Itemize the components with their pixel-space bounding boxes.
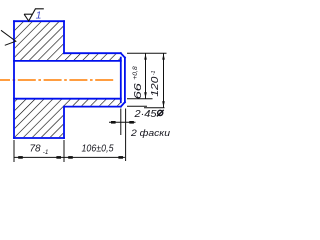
svg-text:-1: -1	[43, 149, 49, 156]
svg-text:+0,8: +0,8	[133, 66, 139, 80]
hatch flange lower band	[15, 99, 63, 138]
bore bottom line	[14, 98, 121, 100]
chamfer diagonal bottom	[121, 102, 125, 106]
chamfer line	[120, 58, 122, 103]
chamfer diagonal top	[121, 53, 125, 57]
step face lower	[63, 107, 65, 138]
arrow 66 top	[144, 54, 147, 60]
arrow 120 top	[162, 54, 165, 60]
arrow 120 bottom	[162, 101, 165, 107]
dimension line 66 vertical	[145, 53, 147, 98]
extension chamfer line down	[120, 109, 122, 136]
chamfer width dimension line	[109, 121, 136, 123]
extension end face down	[125, 109, 127, 162]
arrow 66 bottom	[144, 92, 147, 98]
svg-text:106±0,5: 106±0,5	[82, 143, 114, 154]
tick chamfer left	[111, 121, 116, 124]
dimension graphics (black thin)	[14, 53, 167, 162]
hatch flange upper band	[15, 22, 63, 60]
svg-text:1: 1	[36, 10, 42, 22]
svg-text:-1: -1	[151, 70, 157, 75]
hatch shaft upper wall	[63, 54, 121, 60]
dimension line 120 vertical	[163, 53, 165, 107]
tick 106 right	[118, 156, 123, 159]
flange top edge	[14, 20, 64, 22]
bottom dimension line 78 / 106	[14, 156, 125, 158]
extension shaft top right	[127, 52, 167, 54]
svg-text:120: 120	[150, 76, 161, 97]
left face	[13, 21, 15, 138]
end face	[124, 58, 126, 103]
svg-text:78: 78	[30, 144, 42, 155]
bore top line	[14, 60, 121, 62]
extension shaft bottom right	[127, 105, 147, 107]
shelf line of chamfer note	[144, 107, 165, 109]
extension line left face down	[13, 140, 15, 162]
extension line flange right down	[63, 140, 65, 162]
tick 106 left	[68, 156, 73, 159]
svg-text:2·45: 2·45	[133, 109, 157, 120]
tick 78 left	[18, 156, 23, 159]
svg-text:66: 66	[132, 83, 144, 99]
hatch shaft lower wall	[63, 99, 121, 106]
tick 78 right	[56, 156, 61, 159]
shaft OD bottom	[64, 106, 121, 108]
centerline (axis)	[0, 79, 115, 81]
flange bottom edge	[14, 137, 64, 139]
degree symbol with slash	[157, 110, 164, 117]
extension bore bottom right	[127, 98, 153, 100]
shaft OD top	[64, 52, 121, 54]
tick chamfer right	[129, 121, 134, 124]
svg-text:2 фаски: 2 фаски	[130, 128, 170, 138]
part outline (blue)	[14, 21, 125, 138]
roughness symbol left	[1, 30, 16, 45]
roughness symbol top	[24, 9, 44, 21]
step face upper	[63, 21, 65, 53]
